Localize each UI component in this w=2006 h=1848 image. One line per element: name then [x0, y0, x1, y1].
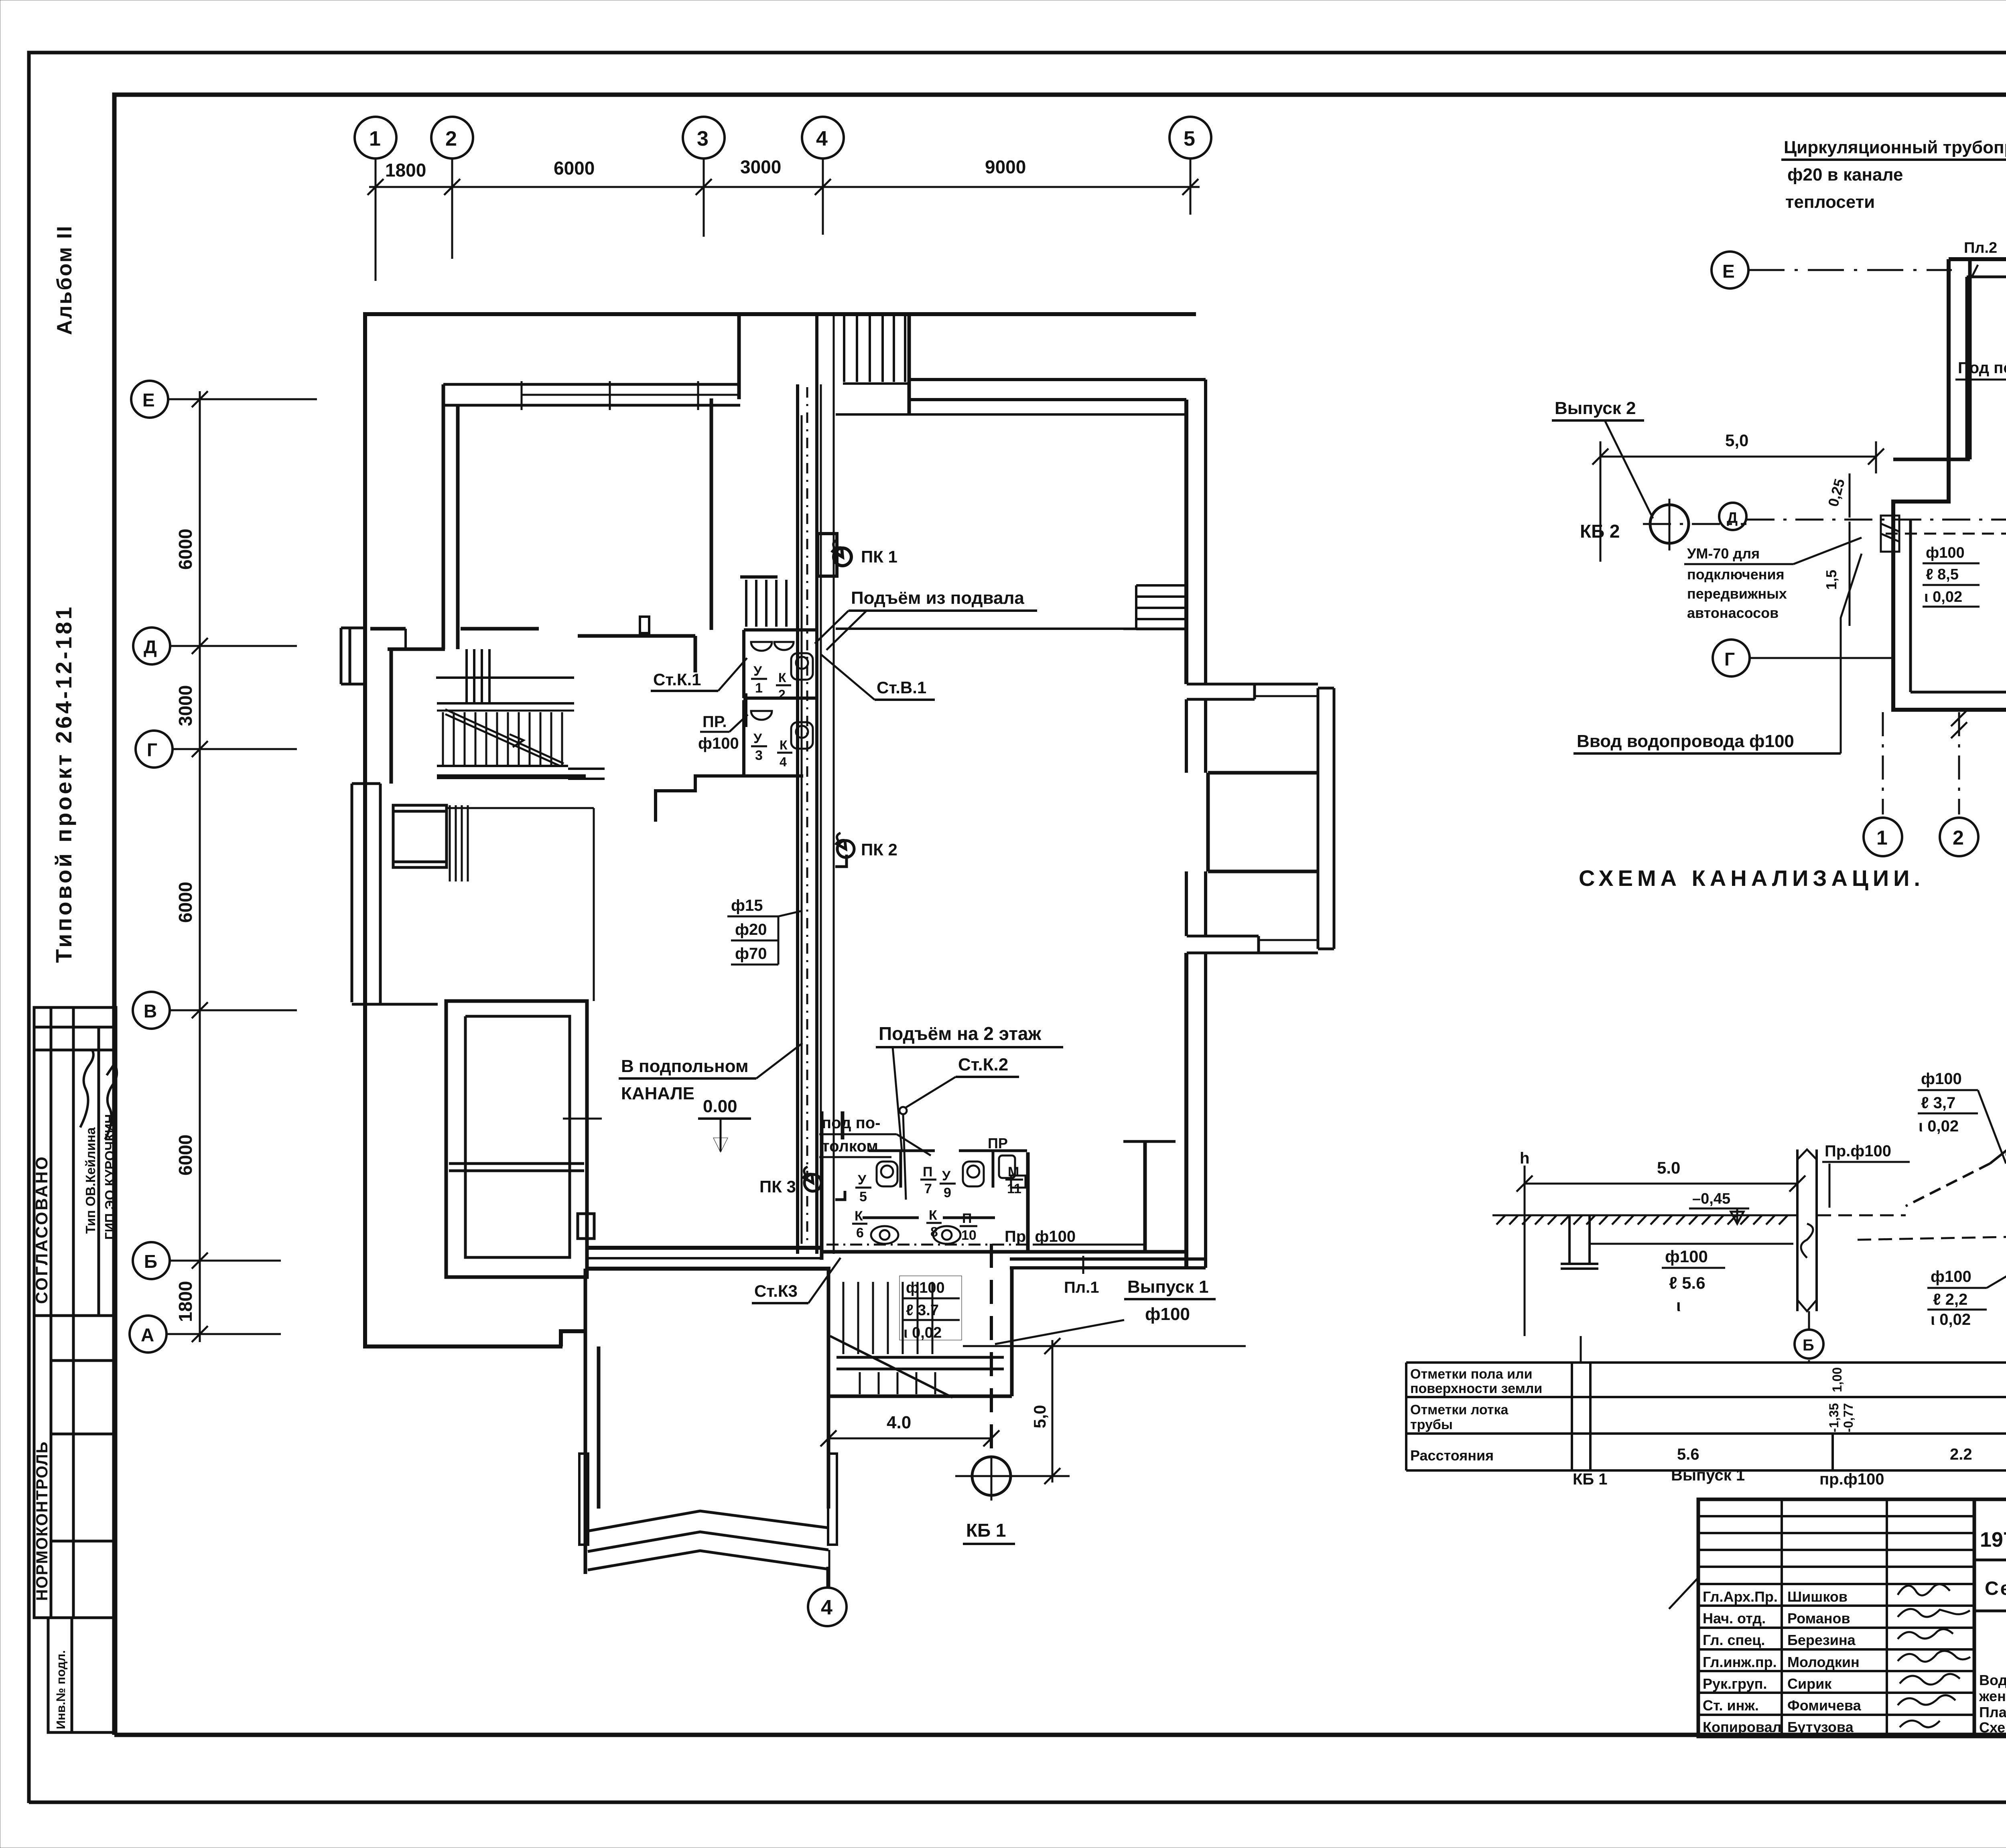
svg-text:ф100: ф100	[906, 1279, 945, 1296]
stairwell tread hatch	[843, 1282, 935, 1394]
duct extra thin line	[820, 384, 822, 1252]
label Подъём из подвала	[815, 588, 1037, 650]
corridor wall horizontal mid	[388, 649, 445, 784]
svg-text:-0,77: -0,77	[1841, 1403, 1856, 1432]
wall right upper	[1184, 400, 1188, 684]
svg-text:СОГЛАСОВАНО: СОГЛАСОВАНО	[32, 1155, 51, 1304]
inlet hatch box	[1881, 516, 1899, 552]
left dimension line vertical	[192, 391, 208, 1342]
svg-text:Бутузова: Бутузова	[1787, 1719, 1854, 1735]
svg-text:1800: 1800	[175, 1281, 196, 1322]
svg-text:Ст.К.2: Ст.К.2	[958, 1055, 1008, 1074]
svg-text:6000: 6000	[554, 158, 595, 179]
label Пр ф100 profile	[1822, 1142, 1910, 1208]
svg-text:1,5: 1,5	[1823, 570, 1840, 590]
svg-text:3: 3	[755, 748, 763, 763]
corridor duct verticals	[798, 314, 817, 1254]
label Ст К 2	[899, 1055, 1019, 1200]
hydrant ПК2	[835, 833, 854, 867]
svg-text:Березина: Березина	[1787, 1632, 1856, 1648]
title block outline	[1698, 1499, 2006, 1736]
label Под потолком	[1955, 359, 2006, 401]
svg-text:Ст.В.1: Ст.В.1	[877, 678, 926, 697]
left axis circle В	[133, 992, 297, 1029]
svg-text:1: 1	[1876, 827, 1888, 849]
stair mid upper flight treads	[467, 649, 489, 703]
svg-text:ι 0,02: ι 0,02	[904, 1324, 942, 1341]
plan2 inner wall lines	[1911, 277, 2006, 692]
tambour break zigzag	[588, 1511, 828, 1570]
closet mid left	[393, 805, 468, 881]
svg-text:Г: Г	[147, 739, 157, 760]
lower left room walls	[446, 1001, 602, 1277]
svg-text:5: 5	[859, 1189, 867, 1204]
label УМ-70	[1684, 538, 1862, 621]
svg-text:Инв.№ подл.: Инв.№ подл.	[54, 1650, 68, 1729]
elevation table	[1406, 1363, 2006, 1470]
extension line right of stairwell	[963, 1345, 1246, 1347]
well КБ2	[1650, 499, 1689, 550]
upper hall thin wall	[836, 413, 1186, 416]
wall bottom right segment	[1010, 1257, 1206, 1261]
profile pipe line	[1590, 1243, 1793, 1245]
elevation values	[1677, 1365, 2006, 1463]
svg-text:0,25: 0,25	[1825, 477, 1848, 508]
svg-text:8: 8	[930, 1225, 938, 1240]
leader Пл1	[1082, 1256, 1084, 1274]
left axis circle Г	[136, 731, 297, 768]
basement stair treads	[740, 577, 786, 627]
plan2 axis Г line	[1750, 657, 1892, 659]
svg-text:ф20: ф20	[735, 921, 767, 938]
vestibule entrance treads	[843, 316, 909, 384]
dim 5.0 vertical	[1030, 1338, 1060, 1484]
svg-text:Гл.инж.пр.: Гл.инж.пр.	[1703, 1654, 1777, 1670]
svg-text:7: 7	[924, 1181, 932, 1196]
svg-text:ПР.: ПР.	[703, 713, 727, 731]
column mid corridor	[640, 617, 649, 633]
svg-text:К: К	[855, 1208, 863, 1224]
svg-text:11: 11	[1007, 1181, 1021, 1196]
svg-text:Циркуляционный трубопровод: Циркуляционный трубопровод	[1784, 138, 2006, 157]
duct pipe thin lines	[802, 314, 834, 1254]
sheet description	[1979, 1672, 2006, 1736]
svg-text:ℓ 8,5: ℓ 8,5	[1926, 566, 1959, 583]
building wall section	[1797, 1149, 1817, 1311]
svg-text:подключения: подключения	[1687, 566, 1785, 583]
axis Б circle profile	[1795, 1311, 1823, 1359]
svg-text:П: П	[962, 1211, 972, 1226]
svg-text:Б: Б	[1803, 1336, 1814, 1354]
signature squiggle 2	[105, 1063, 117, 1139]
wall bottom mid segment	[587, 1246, 823, 1250]
svg-text:–0,45: –0,45	[1692, 1190, 1730, 1207]
tambour window marks	[579, 1454, 588, 1545]
svg-text:Тип ОВ.Кейлина: Тип ОВ.Кейлина	[83, 1127, 98, 1234]
svg-text:ℓ 5.6: ℓ 5.6	[1669, 1273, 1706, 1292]
svg-text:У: У	[753, 664, 762, 679]
washroom fixtures upper	[751, 642, 813, 749]
water main dashdot	[1643, 523, 1746, 525]
label К8	[926, 1208, 942, 1240]
elevation table labels	[1410, 1367, 1542, 1464]
top right double wall	[909, 378, 1206, 381]
plan2 bottom axis stubs	[1883, 710, 2006, 814]
label Пр ф100 bottom	[1005, 1228, 1076, 1245]
svg-text:ф100: ф100	[698, 735, 739, 752]
svg-text:9: 9	[944, 1185, 951, 1200]
datum 0.00	[698, 1097, 751, 1152]
top axis circle 4	[802, 117, 844, 235]
svg-text:Ст.К3: Ст.К3	[754, 1281, 798, 1300]
year and project number row	[1974, 1499, 2006, 1560]
wall right lower	[1184, 953, 1188, 1268]
porch left small	[341, 628, 365, 684]
svg-text:УМ-70 для: УМ-70 для	[1687, 545, 1760, 562]
svg-text:ПР: ПР	[988, 1135, 1008, 1151]
svg-text:4: 4	[780, 755, 787, 769]
vestibule walls top	[739, 314, 909, 415]
svg-text:Схема канализации.: Схема канализации.	[1979, 1719, 2006, 1736]
svg-text:ф100: ф100	[1926, 544, 1965, 561]
plan2 axis Е circle	[1712, 252, 1748, 288]
svg-text:Шишков: Шишков	[1787, 1588, 1848, 1605]
pier lower right of room	[578, 1214, 594, 1239]
svg-text:Пл.1: Пл.1	[1064, 1279, 1099, 1296]
svg-text:Молодкин: Молодкин	[1787, 1654, 1860, 1670]
svg-text:5.6: 5.6	[1677, 1446, 1699, 1463]
svg-text:1: 1	[755, 680, 763, 696]
svg-text:Отметки пола или: Отметки пола или	[1410, 1367, 1533, 1382]
profile pipe labels	[1662, 1247, 1725, 1315]
label Ст К 1	[651, 658, 747, 691]
svg-text:ι: ι	[1676, 1296, 1681, 1315]
svg-text:ι 0,02: ι 0,02	[1919, 1117, 1959, 1135]
svg-text:КБ 1: КБ 1	[1573, 1470, 1608, 1488]
svg-text:ι 0,02: ι 0,02	[1931, 1311, 1971, 1328]
leader slash left of table	[1669, 1577, 1699, 1609]
tambour bottom walls	[585, 1269, 829, 1588]
svg-text:Е: Е	[142, 390, 155, 410]
svg-text:КБ 1: КБ 1	[966, 1520, 1006, 1541]
svg-text:Под потолком: Под потолком	[1958, 359, 2006, 377]
svg-text:М: М	[1008, 1164, 1019, 1180]
upper left room walls	[370, 384, 711, 672]
washroom upper box	[654, 630, 817, 822]
lower dashed main	[1858, 1174, 2006, 1247]
axis Д circle small	[1719, 503, 1746, 530]
svg-text:ГИП ЭО.КУРОЧКИН: ГИП ЭО.КУРОЧКИН	[102, 1114, 117, 1240]
stair mid treads	[443, 712, 562, 765]
portico right walls	[1187, 684, 1334, 953]
svg-text:5,0: 5,0	[1725, 431, 1748, 450]
svg-text:Б: Б	[144, 1251, 157, 1272]
fixtures bottom toilets	[871, 1156, 1025, 1244]
labels ф100 l2.2	[1927, 1238, 2006, 1328]
top dimension line	[367, 179, 1200, 195]
svg-text:НОРМОКОНТРОЛЬ: НОРМОКОНТРОЛЬ	[33, 1441, 51, 1601]
label Циркуляционный трубопровод	[1781, 138, 2006, 212]
dim 0.25 rotated	[1825, 473, 1850, 518]
svg-text:Отметки лотка: Отметки лотка	[1410, 1402, 1509, 1417]
svg-text:4.0: 4.0	[887, 1413, 911, 1432]
wall bottom left segment	[363, 1344, 562, 1348]
svg-text:толком: толком	[822, 1137, 878, 1155]
hall top wall thin	[836, 628, 1186, 630]
signature squiggles	[1898, 1584, 1970, 1727]
svg-text:ι 0,02: ι 0,02	[1924, 589, 1962, 605]
label К4	[777, 738, 792, 769]
svg-text:Копировал: Копировал	[1703, 1719, 1781, 1735]
fixtures room bottom walls	[822, 1111, 1186, 1260]
svg-text:-1,35: -1,35	[1827, 1403, 1841, 1432]
svg-text:4: 4	[816, 127, 828, 150]
portico bay window	[1208, 773, 1318, 871]
svg-text:теплосети: теплосети	[1785, 192, 1875, 212]
svg-text:2: 2	[1953, 827, 1964, 849]
svg-text:Пр.ф100: Пр.ф100	[1825, 1142, 1891, 1160]
stairwell bottom outline	[828, 1269, 1012, 1396]
svg-text:3: 3	[697, 127, 709, 150]
profile h axis	[1520, 1149, 1529, 1336]
plan2 axis circle 2	[1940, 818, 1978, 856]
top axis circle 5	[1169, 117, 1211, 215]
svg-text:СХЕМА КАНАЛИЗАЦИИ.: СХЕМА КАНАЛИЗАЦИИ.	[1579, 865, 1925, 891]
label Ввод водопровода	[1574, 554, 1862, 753]
svg-text:Водопровод, горячее водоснаб-: Водопровод, горячее водоснаб-	[1979, 1672, 2006, 1688]
svg-text:Расстояния: Расстояния	[1410, 1447, 1494, 1464]
label Выпуск 2	[1552, 398, 1653, 518]
labels ф100 8.5 0.02	[1923, 544, 1980, 607]
svg-text:У: У	[858, 1172, 867, 1188]
left axis circle А	[130, 1316, 281, 1352]
table risers verticals	[1581, 1336, 1809, 1363]
svg-text:КАНАЛЕ: КАНАЛЕ	[621, 1084, 694, 1103]
svg-text:ф20 в канале: ф20 в канале	[1787, 165, 1903, 185]
svg-text:План 1 этажа. План подвала.: План 1 этажа. План подвала.	[1979, 1704, 2006, 1720]
label под потолком	[819, 1114, 931, 1157]
label М11	[1005, 1164, 1023, 1196]
plan2 axis Е dashdot	[1748, 269, 1952, 271]
stair mid left outline	[436, 678, 605, 779]
svg-text:Ст. инж.: Ст. инж.	[1703, 1697, 1759, 1714]
stack bottom bend	[1906, 1123, 2006, 1206]
wall top	[363, 312, 1196, 316]
svg-text:Гл.Арх.Пр.: Гл.Арх.Пр.	[1703, 1588, 1778, 1605]
label Подъём на 2 этаж	[876, 1023, 1063, 1151]
svg-text:5,0: 5,0	[1030, 1405, 1049, 1428]
left axis circle Е	[131, 381, 317, 418]
left axis circle Б	[133, 1242, 281, 1279]
upper left window band	[443, 381, 740, 410]
top axis circle 1	[355, 117, 396, 281]
label У1	[751, 664, 767, 696]
branch dashed М11	[2006, 1143, 2006, 1160]
plan2 exterior walls	[1893, 259, 2006, 710]
signature squiggle 1	[80, 1049, 93, 1127]
svg-text:Альбом II: Альбом II	[53, 225, 76, 335]
profile well КБ1	[1561, 1215, 1598, 1269]
dim 1.5 rotated	[1823, 522, 1850, 626]
svg-text:10: 10	[961, 1228, 977, 1243]
svg-text:передвижных: передвижных	[1687, 585, 1787, 602]
label Выпуск 1	[995, 1277, 1216, 1344]
svg-text:К: К	[780, 738, 788, 752]
well КБ1	[955, 1456, 1070, 1501]
svg-text:Е: Е	[1722, 261, 1735, 282]
svg-text:1800: 1800	[385, 160, 426, 181]
svg-text:1: 1	[369, 127, 381, 150]
svg-text:ℓ 3.7: ℓ 3.7	[906, 1302, 939, 1319]
signature table texts	[1703, 1588, 1862, 1735]
svg-text:В подпольном: В подпольном	[621, 1056, 749, 1076]
svg-text:Д: Д	[1727, 510, 1738, 526]
svg-text:Пр. ф100: Пр. ф100	[1005, 1228, 1076, 1245]
labels ф100 l3.7 i0.02	[899, 1276, 962, 1340]
svg-text:h: h	[1520, 1149, 1529, 1167]
profile dim 5.0	[1517, 1158, 1805, 1192]
svg-text:ф70: ф70	[735, 945, 767, 963]
svg-text:4: 4	[821, 1596, 832, 1619]
svg-text:1978 г.: 1978 г.	[1980, 1528, 2006, 1552]
svg-text:Типовой проект 264-12-181: Типовой проект 264-12-181	[51, 605, 76, 963]
labels ф100 l3.7 scheme	[1918, 1070, 2006, 1164]
plan1 exterior walls	[363, 314, 1206, 1346]
side entrance steps right	[1123, 585, 1186, 629]
svg-text:Сирик: Сирик	[1787, 1675, 1832, 1692]
svg-text:3000: 3000	[740, 156, 781, 177]
svg-text:2: 2	[778, 687, 786, 702]
svg-text:К: К	[929, 1208, 937, 1223]
label Ст В 1	[820, 654, 935, 700]
vypusk dashed line	[990, 1244, 993, 1456]
svg-text:поверхности земли: поверхности земли	[1410, 1381, 1542, 1396]
svg-text:3000: 3000	[175, 685, 196, 726]
svg-text:ф100: ф100	[1665, 1247, 1708, 1266]
svg-text:Выпуск 1: Выпуск 1	[1127, 1277, 1209, 1297]
svg-text:ф100: ф100	[1931, 1268, 1971, 1285]
svg-text:6000: 6000	[175, 1135, 196, 1176]
label У5	[855, 1172, 871, 1204]
svg-text:ф100: ф100	[1145, 1304, 1190, 1324]
svg-text:6000: 6000	[175, 529, 196, 570]
left stamp table	[34, 1007, 116, 1618]
svg-text:Выпуск 2: Выпуск 2	[1555, 398, 1636, 418]
svg-text:1,00: 1,00	[1830, 1367, 1844, 1392]
svg-text:под по-: под по-	[822, 1114, 880, 1132]
svg-text:ф15: ф15	[731, 897, 763, 914]
svg-text:Рук.груп.: Рук.груп.	[1703, 1675, 1767, 1692]
label У9	[940, 1168, 956, 1200]
label Пл 2	[1964, 240, 1997, 277]
dashed outfall to scheme	[1817, 1214, 1906, 1216]
Инв № подл box	[48, 1618, 116, 1732]
hydrant ПК3	[804, 1167, 845, 1200]
svg-text:пр.ф100: пр.ф100	[1819, 1470, 1884, 1488]
plan2 axis Г circle	[1713, 640, 1750, 676]
label П7	[920, 1164, 936, 1196]
duct dash dot riser	[806, 387, 808, 1248]
signature table grid	[1698, 1499, 1974, 1736]
svg-text:Романов: Романов	[1787, 1610, 1850, 1627]
bottom axis circle 4	[808, 1567, 847, 1626]
dash dot pipe bottom room	[826, 1244, 1033, 1246]
label Пр ф100 upper	[698, 713, 748, 752]
svg-text:Фомичева: Фомичева	[1787, 1697, 1862, 1714]
svg-text:П: П	[923, 1164, 932, 1180]
svg-text:К: К	[778, 670, 786, 685]
label Ст К 3	[752, 1258, 841, 1303]
svg-text:ПК 3: ПК 3	[759, 1177, 796, 1196]
svg-text:2: 2	[445, 127, 457, 150]
wall left	[363, 314, 367, 1346]
svg-text:5: 5	[1184, 127, 1195, 150]
svg-text:Нач. отд.: Нач. отд.	[1703, 1610, 1766, 1627]
svg-text:6: 6	[856, 1225, 864, 1241]
svg-text:Выпуск 1: Выпуск 1	[1671, 1466, 1745, 1484]
svg-text:ПК 2: ПК 2	[861, 840, 897, 859]
partition tees	[863, 1141, 1176, 1218]
top axis circle 2	[431, 117, 473, 259]
plan2 interior walls	[1893, 259, 2006, 459]
svg-text:Ст.К.1: Ст.К.1	[653, 670, 701, 689]
labels ф15 ф20 ф70	[727, 897, 802, 965]
svg-text:КБ 2: КБ 2	[1580, 521, 1620, 542]
stairwell diagonal	[830, 1336, 952, 1397]
svg-text:0.00: 0.00	[703, 1097, 737, 1116]
porch left long	[352, 784, 438, 1004]
stairwell landing bars	[837, 1357, 1004, 1369]
svg-text:автонасосов: автонасосов	[1687, 605, 1779, 621]
svg-text:ф100: ф100	[1921, 1070, 1962, 1088]
svg-text:Гл. спец.: Гл. спец.	[1703, 1632, 1765, 1648]
hydrant ПК1	[818, 534, 851, 576]
profile ground line	[1492, 1214, 1797, 1216]
svg-text:ℓ 3,7: ℓ 3,7	[1921, 1094, 1955, 1112]
dim 4.0 bottom	[820, 1413, 999, 1446]
profile ground hatch	[1496, 1215, 1788, 1225]
label У3	[751, 731, 767, 763]
svg-text:ПК 1: ПК 1	[861, 547, 897, 566]
dim 5.0 plan2	[1592, 431, 1884, 562]
label К6	[852, 1208, 867, 1241]
svg-text:Г: Г	[1724, 649, 1735, 670]
svg-text:У: У	[753, 731, 762, 746]
profile -0.45 datum	[1689, 1190, 1749, 1224]
svg-text:жение, канализация.: жение, канализация.	[1979, 1688, 2006, 1704]
svg-text:Сельский клуб с залом на: Сельский клуб с залом на 150 мест	[1985, 1578, 2006, 1599]
svg-text:5.0: 5.0	[1657, 1158, 1680, 1177]
left axis circle Д	[133, 628, 297, 664]
svg-text:трубы: трубы	[1410, 1417, 1453, 1432]
label КБ1	[963, 1520, 1015, 1544]
svg-text:2.2: 2.2	[1950, 1446, 1972, 1463]
label К2	[776, 670, 791, 702]
label В подпольном канале	[619, 1043, 802, 1103]
object name row	[1974, 1578, 2006, 1611]
svg-text:9000: 9000	[985, 156, 1026, 177]
below table labels	[1573, 1466, 2006, 1488]
svg-text:ℓ 2,2: ℓ 2,2	[1933, 1291, 1967, 1308]
svg-text:Д: Д	[144, 636, 157, 657]
svg-text:Ввод водопровода ф100: Ввод водопровода ф100	[1577, 731, 1794, 751]
top axis circle 3	[683, 117, 725, 237]
svg-text:Пл.2: Пл.2	[1964, 240, 1997, 256]
stair mid diagonal arrow	[445, 709, 564, 766]
svg-text:Подъём из подвала: Подъём из подвала	[851, 588, 1024, 608]
corridor thin wall	[447, 808, 594, 1001]
svg-text:У: У	[942, 1168, 951, 1184]
